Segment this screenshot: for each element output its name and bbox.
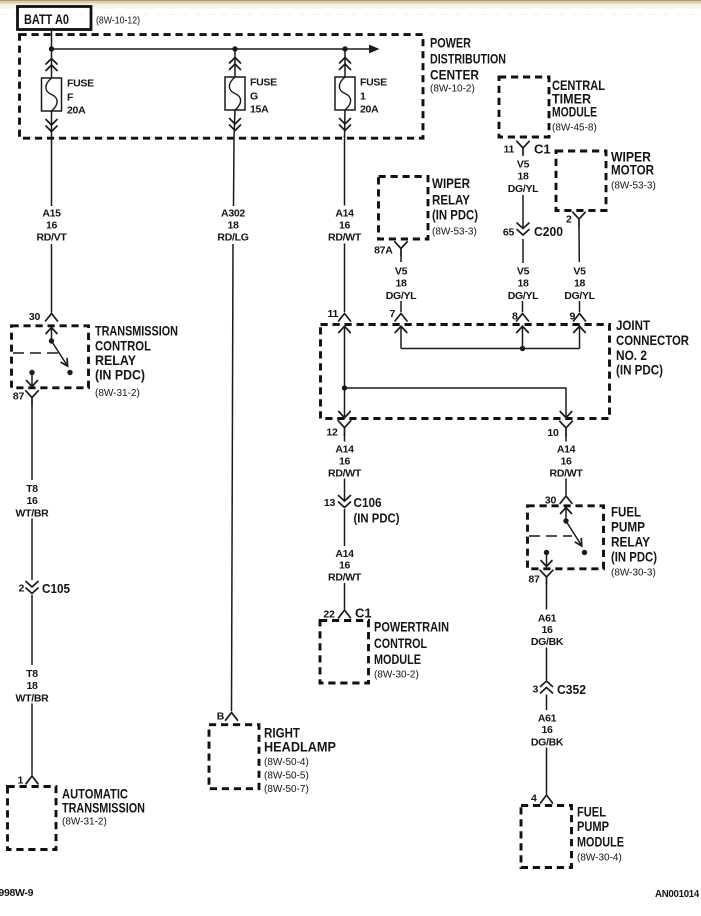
svg-text:RD/VT: RD/VT (36, 232, 67, 244)
svg-text:TRANSMISSION: TRANSMISSION (62, 800, 145, 816)
joint internal arrow to pin 12 (339, 388, 351, 418)
svg-text:A14: A14 (557, 444, 576, 456)
relay TCR movable blade to 87A (52, 341, 73, 375)
svg-text:RD/WT: RD/WT (328, 232, 362, 244)
wire T8 to C105 (31, 519, 33, 581)
powertrain control module box (320, 621, 369, 684)
wire V5 below C200 (522, 239, 524, 263)
svg-text:2: 2 (18, 583, 24, 595)
svg-text:C352: C352 (557, 682, 586, 697)
svg-text:FUSE: FUSE (360, 77, 387, 89)
wire: BATT A0 down to bus (51, 30, 53, 50)
svg-text:3: 3 (532, 684, 538, 696)
wire label A61 16 DG/BK (lower) (531, 713, 564, 749)
wire A61 to fuel pump module (546, 748, 548, 795)
wire A14 segment below PDC (344, 138, 346, 206)
label WIPER RELAY (IN PDC) (432, 175, 478, 238)
svg-text:12: 12 (326, 427, 338, 439)
wire label A61 16 DG/BK (531, 613, 564, 649)
wire label A14 16 RD/WT (below C106) (328, 548, 362, 584)
svg-text:87: 87 (528, 574, 540, 586)
pin 87 (fuel pump relay) (528, 570, 552, 585)
connector C352 pin 3 (532, 681, 586, 697)
label POWER DISTRIBUTION CENTER (430, 35, 506, 95)
svg-text:A14: A14 (335, 548, 354, 560)
pin 11 (joint connector no. 2) (328, 308, 351, 321)
node on pin 11 wire feeding pin 10 (342, 385, 347, 390)
svg-text:87: 87 (13, 391, 25, 403)
svg-text:JOINT: JOINT (616, 317, 650, 333)
svg-text:C1: C1 (534, 142, 551, 157)
svg-text:18: 18 (395, 278, 407, 290)
relay FPR movable blade (566, 521, 587, 555)
label AUTOMATIC TRANSMISSION (62, 786, 145, 828)
pin 2 (wiper motor) (566, 212, 585, 226)
svg-text:C200: C200 (534, 224, 563, 239)
svg-text:(8W-50-7): (8W-50-7) (264, 784, 309, 795)
wire label V5 18 DG/YL (CTM) (508, 159, 539, 196)
svg-text:(8W-30-4): (8W-30-4) (577, 853, 622, 864)
wire A61 from relay 87 (546, 583, 548, 610)
pin 30 (transmission control relay) (29, 311, 58, 323)
fuse F 20A (42, 49, 95, 138)
wire A15 segment below PDC (51, 138, 53, 206)
svg-text:(8W-45-8): (8W-45-8) (552, 123, 597, 134)
pin 1 (automatic transmission) (17, 775, 38, 787)
svg-text:MODULE: MODULE (577, 834, 624, 850)
wire A15 to relay pin 30 (51, 244, 53, 313)
svg-text:11: 11 (328, 308, 339, 320)
wire A14 to C106 (344, 479, 346, 501)
wiper motor box (556, 151, 606, 211)
svg-text:POWERTRAIN: POWERTRAIN (374, 619, 449, 635)
joint connector no. 2 box (321, 325, 610, 419)
svg-text:T8: T8 (26, 668, 38, 680)
svg-text:WIPER: WIPER (432, 175, 470, 191)
pin 30 (fuel pump relay) (545, 495, 572, 507)
wiper relay box (379, 177, 429, 240)
svg-text:T8: T8 (26, 483, 38, 495)
connector C1 pin 22 (powertrain control module) (323, 606, 371, 621)
svg-text:16: 16 (541, 724, 553, 736)
pin 12 (joint connector no. 2) (326, 421, 350, 439)
svg-text:10: 10 (547, 427, 559, 439)
wire label A14 16 RD/WT (below pin 10) (550, 444, 584, 480)
svg-text:C105: C105 (42, 581, 70, 596)
pin 10 (joint connector no. 2) (547, 421, 572, 439)
svg-text:(IN PDC): (IN PDC) (616, 362, 663, 378)
svg-text:RELAY: RELAY (432, 192, 471, 208)
joint internal wire pin 11 to node (339, 326, 351, 388)
wire T8 18 below C105 (31, 595, 33, 665)
svg-text:11: 11 (504, 144, 515, 156)
svg-text:CONTROL: CONTROL (374, 635, 427, 651)
svg-text:20A: 20A (360, 104, 379, 116)
joint internal arrow to pin 8 (517, 326, 529, 348)
svg-text:(8W-50-4): (8W-50-4) (264, 757, 309, 768)
node: fuse G tap (232, 46, 237, 51)
svg-text:16: 16 (46, 220, 58, 232)
joint internal bus 12-10 (345, 388, 567, 417)
joint internal arrow to pin 9 (574, 326, 586, 348)
connector C1 pin 11 (central timer module) (504, 141, 551, 156)
label CENTRAL TIMER MODULE (552, 77, 605, 134)
svg-text:65: 65 (503, 227, 515, 239)
label FUEL PUMP RELAY (IN PDC) (611, 504, 657, 579)
wire label T8 16 WT/BR (16, 483, 50, 520)
svg-text:16: 16 (339, 560, 351, 572)
svg-text:16: 16 (541, 624, 553, 636)
svg-text:2: 2 (566, 214, 572, 226)
svg-text:(IN PDC): (IN PDC) (611, 549, 657, 565)
node on bus under pin 8 (520, 346, 525, 351)
svg-text:15A: 15A (250, 104, 269, 116)
svg-text:PUMP: PUMP (611, 519, 645, 535)
svg-text:POWER: POWER (430, 35, 471, 51)
label TRANSMISSION CONTROL RELAY (IN PDC) (95, 323, 178, 400)
connector C200 pin 65 (503, 223, 563, 239)
svg-text:DISTRIBUTION: DISTRIBUTION (430, 51, 506, 67)
joint internal arrow to pin 10 (560, 412, 572, 418)
wire A61 below C352 (546, 695, 548, 711)
power distribution center box (20, 35, 424, 139)
bus arrowhead (369, 45, 380, 54)
transmission control relay U1 (12, 326, 89, 388)
wire T8 from relay 87 (31, 404, 33, 481)
svg-text:DG/YL: DG/YL (564, 290, 595, 302)
svg-text:87A: 87A (374, 245, 393, 257)
svg-text:A15: A15 (42, 208, 61, 220)
wire label A302 18 RD/LG (217, 208, 248, 244)
svg-text:WT/BR: WT/BR (16, 693, 50, 705)
fuel pump module box (521, 806, 572, 868)
svg-text:B: B (217, 711, 225, 723)
svg-text:CENTER: CENTER (430, 67, 479, 83)
pin B (right headlamp) (217, 711, 238, 723)
svg-text:MODULE: MODULE (374, 651, 421, 667)
svg-text:16: 16 (339, 456, 351, 468)
svg-text:(8W-50-5): (8W-50-5) (264, 771, 309, 782)
wire from wiper relay 87A (400, 255, 402, 263)
wire A302 long run to right headlamp (232, 244, 234, 711)
svg-text:18: 18 (574, 278, 586, 290)
svg-text:(IN PDC): (IN PDC) (95, 367, 145, 383)
svg-text:PUMP: PUMP (577, 818, 609, 834)
wire from wiper motor pin 2 (578, 226, 580, 263)
wire V5 to joint connector pin 7 (400, 301, 402, 312)
wire label A15 16 RD/VT (36, 208, 67, 244)
connector C106 pin 13 (IN PDC) (324, 495, 400, 526)
svg-text:1: 1 (17, 775, 23, 787)
svg-text:FUEL: FUEL (611, 504, 641, 520)
battery feed BATT A0 (18, 7, 92, 30)
svg-text:16: 16 (560, 456, 572, 468)
svg-text:AN001014: AN001014 (655, 888, 699, 900)
pin 87 (transmission control relay) (13, 391, 38, 405)
node: fuse F tap (49, 46, 54, 51)
wire A14 below pin 10 (565, 435, 567, 442)
svg-text:V5: V5 (395, 266, 408, 278)
svg-text:HEADLAMP: HEADLAMP (264, 739, 336, 755)
joint internal arrow to pin 7 (395, 326, 407, 348)
svg-text:22: 22 (323, 609, 335, 621)
label POWERTRAIN CONTROL MODULE (374, 619, 449, 681)
wire label A14 16 RD/WT (below pin 12) (328, 444, 362, 480)
wire A61 to C352 (546, 648, 548, 681)
svg-text:F: F (67, 92, 74, 104)
svg-text:V5: V5 (517, 266, 530, 278)
svg-text:A61: A61 (538, 713, 557, 725)
wire label V5 18 DG/YL (wiper relay) (386, 266, 417, 303)
svg-text:(8W-10-2): (8W-10-2) (430, 84, 475, 95)
relay FPR internal divider (529, 535, 572, 537)
relay TCR internal divider (13, 352, 58, 354)
svg-text:TRANSMISSION: TRANSMISSION (95, 323, 178, 339)
label WIPER MOTOR (611, 149, 656, 192)
svg-text:MODULE: MODULE (552, 104, 597, 120)
wire A14 below pin 12 (344, 434, 346, 442)
svg-text:RD/LG: RD/LG (217, 232, 248, 244)
svg-text:C1: C1 (355, 606, 372, 621)
wire A14 to joint connector pin 11 (344, 244, 346, 313)
pin 8 (joint connector no. 2) (512, 311, 529, 323)
svg-text:20A: 20A (67, 105, 86, 117)
svg-text:18: 18 (227, 220, 239, 232)
connector C105 pin 2 (18, 581, 70, 596)
right headlamp box (209, 725, 259, 789)
wire V5 from CTM to C200 (522, 195, 524, 227)
svg-text:(8W-30-2): (8W-30-2) (374, 670, 419, 681)
svg-text:CONTROL: CONTROL (95, 337, 151, 353)
relay TCR 87 contact with down arrow (27, 370, 38, 387)
wire A302 segment below PDC (233, 138, 236, 206)
relay TCR common contact arrow (pin 30) (46, 328, 57, 344)
svg-text:RD/WT: RD/WT (550, 468, 584, 480)
pin 9 (joint connector no. 2) (569, 311, 585, 323)
svg-text:DG/YL: DG/YL (508, 290, 539, 302)
svg-text:(8W-30-3): (8W-30-3) (611, 568, 656, 579)
svg-text:A61: A61 (538, 613, 557, 625)
svg-text:DG/YL: DG/YL (386, 290, 417, 302)
label RIGHT HEADLAMP (264, 725, 336, 796)
wire T8 to automatic transmission (31, 704, 33, 776)
svg-text:A302: A302 (221, 208, 245, 220)
svg-text:FUSE: FUSE (250, 77, 277, 89)
wire label A14 16 RD/WT (top) (328, 208, 362, 244)
svg-text:RD/WT: RD/WT (328, 572, 362, 584)
pin 87A (wiper relay) (374, 242, 407, 257)
svg-text:FUSE: FUSE (67, 78, 94, 90)
svg-text:16: 16 (339, 220, 351, 232)
pin 7 (joint connector no. 2) (389, 308, 407, 321)
svg-text:30: 30 (29, 311, 41, 323)
node: fuse 1 tap (342, 46, 347, 51)
relay FPR 87 contact with down arrow (541, 550, 552, 567)
joint internal bus 7-8-9 (401, 348, 580, 350)
svg-text:13: 13 (324, 497, 336, 509)
svg-text:V5: V5 (517, 159, 530, 171)
svg-text:V5: V5 (573, 266, 586, 278)
wire label V5 18 DG/YL (below C200) (508, 266, 539, 303)
svg-text:16: 16 (26, 495, 38, 507)
svg-text:18: 18 (517, 171, 529, 183)
svg-text:DG/BK: DG/BK (531, 737, 564, 749)
fuse 1 20A (335, 49, 387, 138)
svg-text:(8W-10-12): (8W-10-12) (96, 16, 140, 27)
wire A14 to PCM pin 22 (344, 583, 346, 609)
svg-text:18: 18 (517, 278, 529, 290)
svg-text:7: 7 (389, 308, 395, 320)
svg-text:A14: A14 (335, 208, 354, 220)
label JOINT CONNECTOR NO. 2 (IN PDC) (616, 317, 689, 378)
svg-text:WT/BR: WT/BR (16, 508, 50, 520)
wire A14 to fuel pump relay pin 30 (565, 479, 567, 496)
label FUEL PUMP MODULE (577, 804, 624, 864)
wire V5 to joint connector pin 9 (579, 301, 581, 312)
wire A14 below C106 (344, 509, 346, 546)
svg-text:DG/BK: DG/BK (531, 636, 564, 648)
bus wire inside PDC (52, 48, 370, 50)
svg-text:1998W-9: 1998W-9 (0, 887, 34, 899)
svg-text:(IN PDC): (IN PDC) (432, 207, 478, 223)
svg-text:RELAY: RELAY (611, 534, 651, 550)
fuse G 15A (225, 49, 277, 138)
svg-text:(8W-31-2): (8W-31-2) (62, 817, 107, 828)
wire V5 to joint connector pin 8 (522, 301, 524, 312)
wire label V5 18 DG/YL (wiper motor) (564, 266, 595, 303)
automatic transmission module box (8, 787, 57, 850)
svg-text:(8W-53-3): (8W-53-3) (432, 227, 477, 238)
svg-text:1: 1 (360, 91, 366, 103)
svg-text:(8W-31-2): (8W-31-2) (95, 388, 140, 399)
wire label T8 18 WT/BR (16, 668, 50, 705)
svg-text:18: 18 (26, 680, 38, 692)
svg-text:G: G (250, 91, 258, 103)
svg-text:BATT A0: BATT A0 (24, 11, 69, 27)
svg-text:RD/WT: RD/WT (328, 468, 362, 480)
svg-text:C106: C106 (354, 495, 382, 510)
svg-text:DG/YL: DG/YL (508, 183, 539, 195)
svg-text:(8W-53-3): (8W-53-3) (611, 181, 656, 192)
svg-text:(IN PDC): (IN PDC) (354, 511, 400, 526)
svg-text:4: 4 (531, 793, 537, 805)
svg-text:MOTOR: MOTOR (611, 162, 654, 178)
svg-text:CONNECTOR: CONNECTOR (616, 332, 689, 348)
pin 4 (fuel pump module) (531, 793, 553, 805)
fuel pump relay box (528, 506, 604, 569)
central timer module box (499, 77, 549, 137)
relay FPR common contact arrow (pin 30) (561, 508, 572, 524)
svg-text:A14: A14 (335, 444, 354, 456)
